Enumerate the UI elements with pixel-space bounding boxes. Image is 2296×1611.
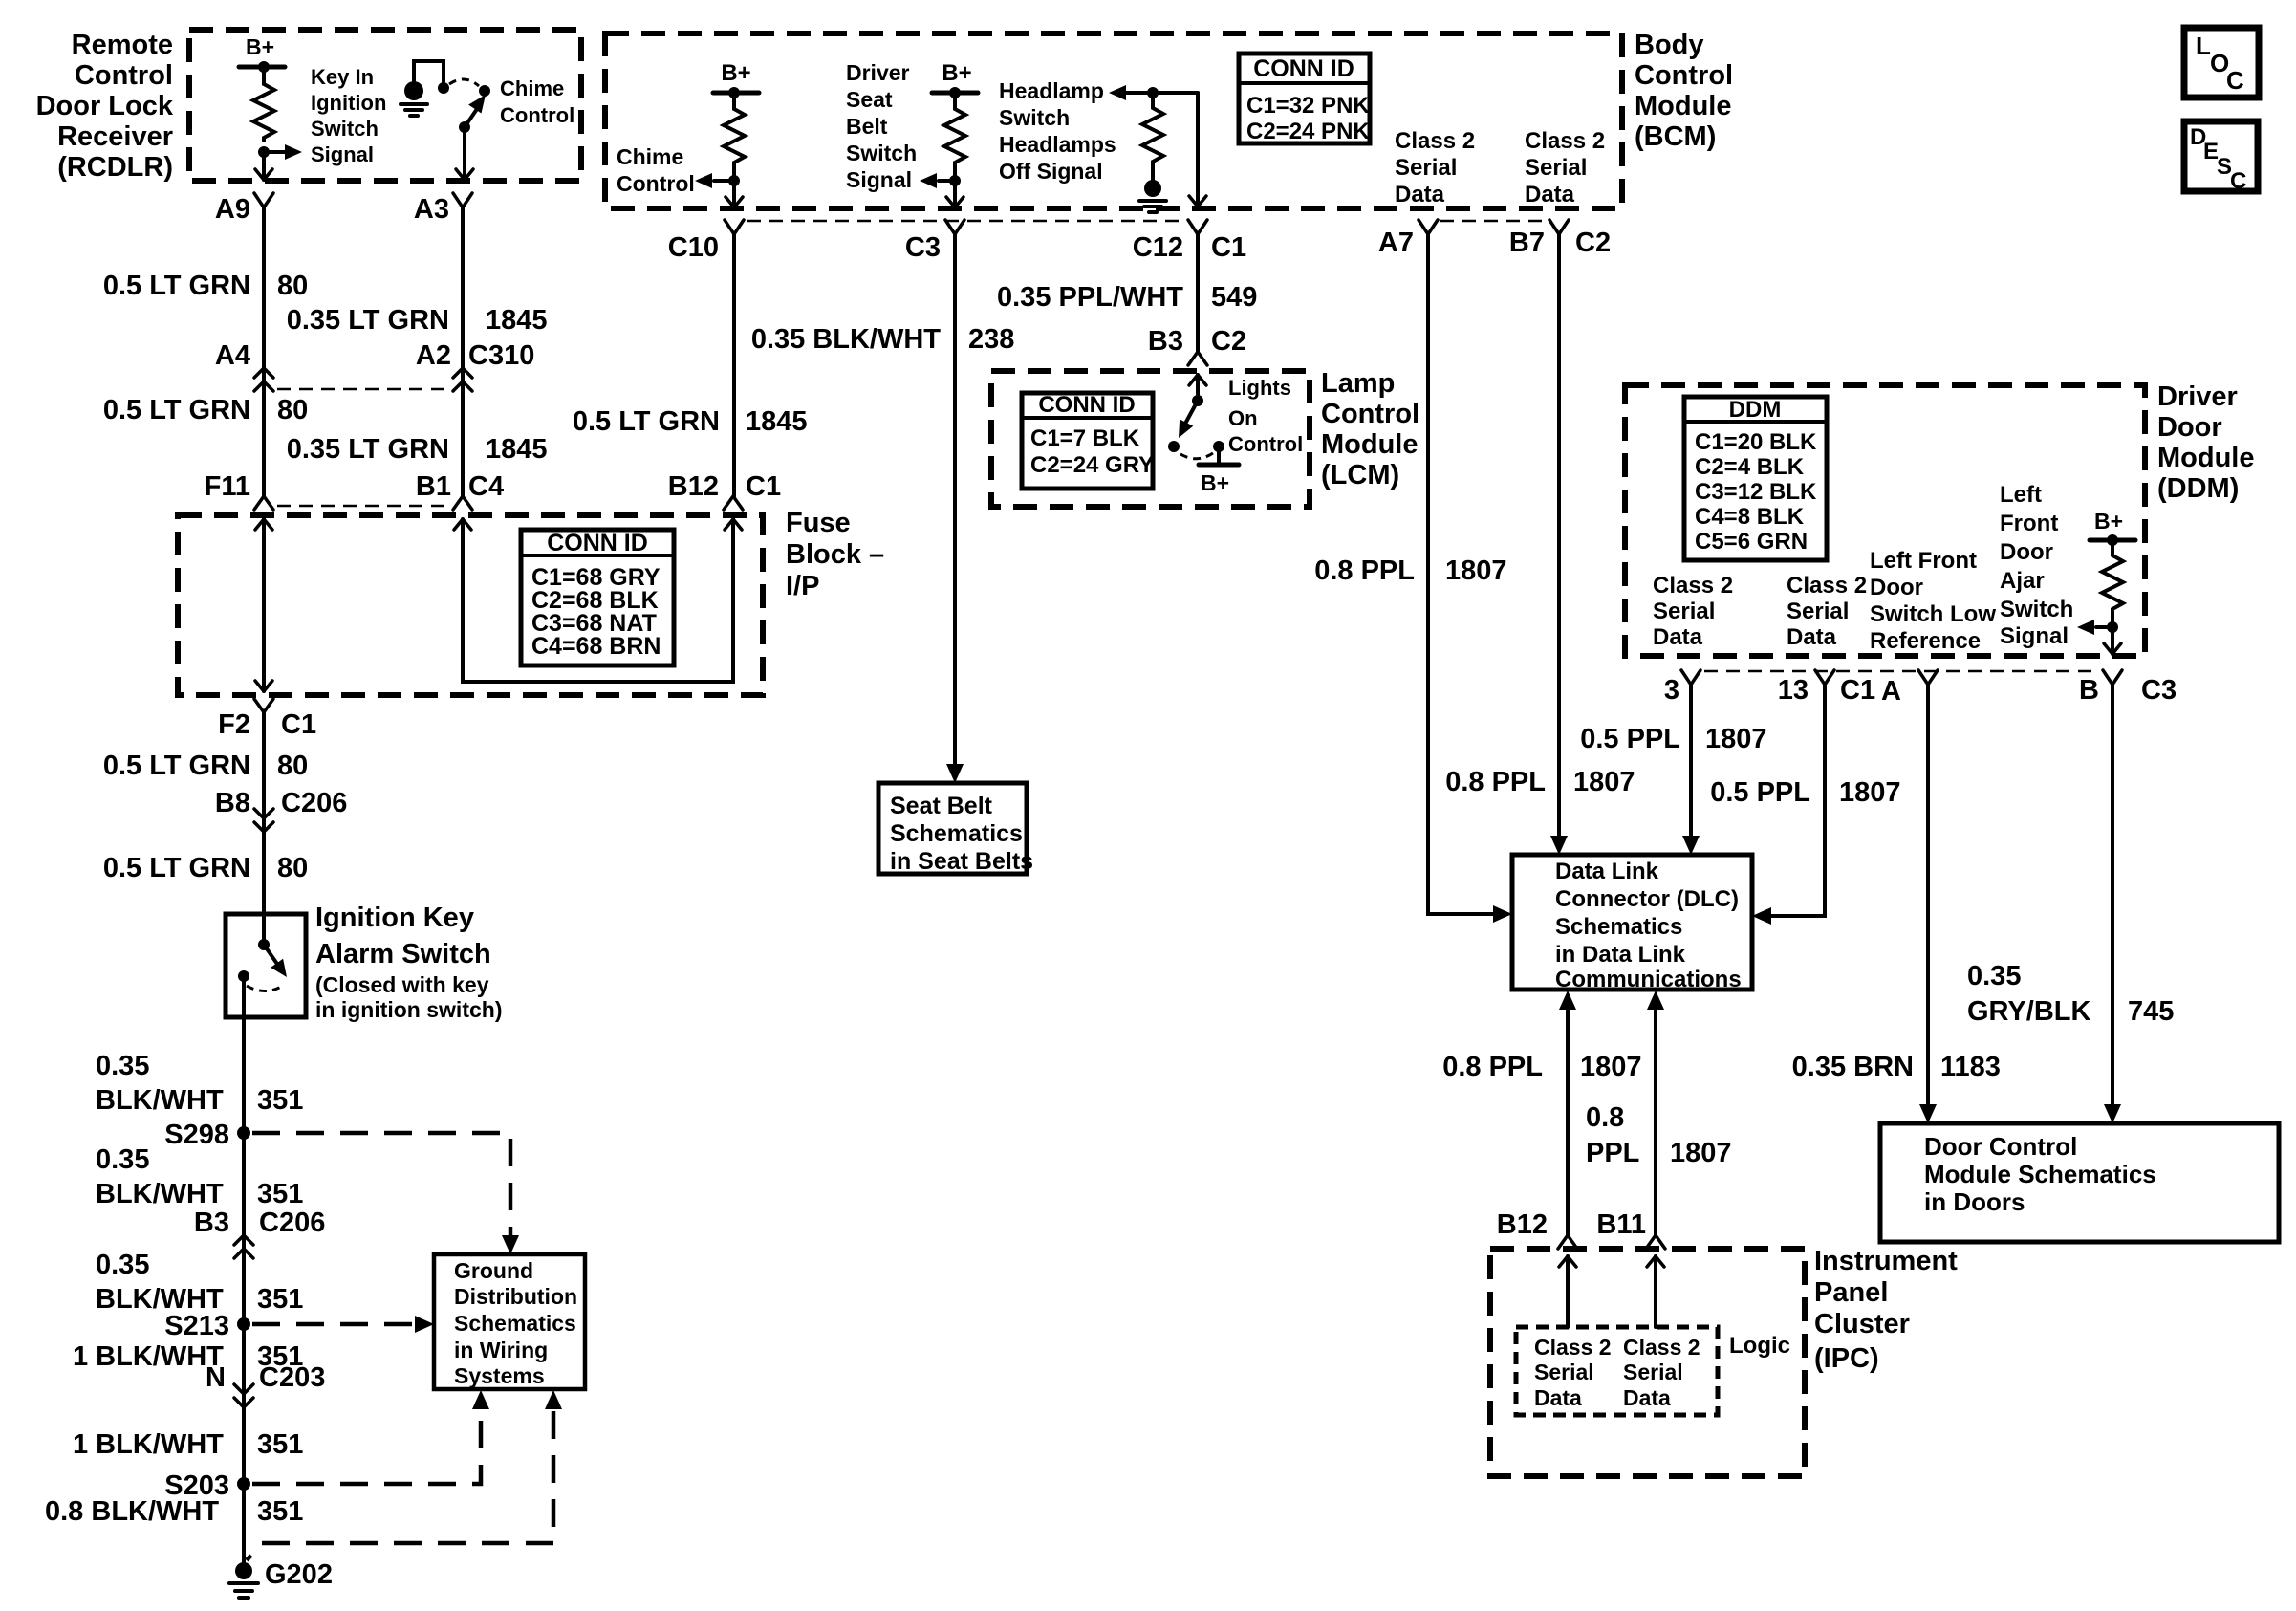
inline connector chevrons B8 C206 [254, 809, 273, 818]
svg-text:351: 351 [257, 1085, 303, 1116]
svg-text:A4: A4 [215, 340, 250, 371]
svg-text:13: 13 [1778, 675, 1809, 706]
svg-text:A: A [1881, 676, 1901, 707]
wire C12 to LCM B3 (0.35 PPL/WHT 549) [1196, 234, 1200, 352]
svg-text:C1=20 BLK: C1=20 BLK [1695, 429, 1817, 455]
svg-text:B3: B3 [194, 1208, 229, 1238]
svg-text:Chime: Chime [500, 76, 564, 100]
svg-text:Class 2: Class 2 [1653, 573, 1733, 599]
junction dot ajar switch node [2107, 621, 2118, 633]
svg-text:Belt: Belt [846, 114, 888, 139]
svg-text:Headlamp: Headlamp [999, 78, 1104, 103]
wire arrow headlamps off signal (pointing left) [1109, 85, 1126, 100]
svg-text:Driver: Driver [2157, 381, 2238, 412]
dashed switch travel arc (chime) [449, 79, 479, 86]
svg-text:549: 549 [1211, 282, 1257, 313]
svg-text:Data: Data [1653, 624, 1703, 650]
svg-text:Headlamps: Headlamps [999, 132, 1116, 157]
svg-text:B+: B+ [721, 60, 750, 86]
power B+ rail (chime) [713, 91, 759, 96]
resistor seat belt switch pull-up (BCM) [944, 106, 965, 165]
svg-text:0.8 PPL: 0.8 PPL [1445, 767, 1546, 797]
svg-text:in Seat Belts: in Seat Belts [890, 848, 1033, 875]
wire chime rail to resistor [732, 93, 736, 106]
svg-text:0.5 LT GRN: 0.5 LT GRN [103, 853, 250, 883]
svg-text:Data: Data [1395, 182, 1445, 207]
dashed link S213 to Ground Distribution box [252, 1322, 413, 1327]
svg-text:Logic: Logic [1729, 1333, 1790, 1359]
wire A7 to DLC (0.8 PPL 1807) [1428, 234, 1495, 914]
power B+ rail (RCDLR) [239, 65, 285, 70]
svg-text:3: 3 [1664, 675, 1679, 706]
junction dot headlamp rail [1147, 87, 1159, 98]
svg-text:Schematics: Schematics [1555, 914, 1682, 940]
node B+ contact (LCM) [1213, 441, 1224, 452]
svg-text:C2=4 BLK: C2=4 BLK [1695, 454, 1805, 480]
dashed connector link F11-B1 [277, 505, 449, 508]
switch arm chime control [465, 109, 477, 127]
splice S213 [237, 1317, 250, 1331]
svg-text:0.35: 0.35 [96, 1051, 149, 1081]
wire bracket from chime ground to contact [414, 61, 444, 82]
svg-text:1807: 1807 [1839, 777, 1901, 808]
svg-text:Connector (DLC): Connector (DLC) [1555, 886, 1739, 912]
power B+ terminal (LCM) [1217, 446, 1221, 463]
svg-text:Serial: Serial [1534, 1360, 1594, 1384]
svg-text:C206: C206 [259, 1208, 325, 1238]
svg-text:Switch: Switch [846, 141, 917, 165]
svg-text:0.5 PPL: 0.5 PPL [1580, 724, 1680, 754]
wire key-in down to pin A9 [262, 152, 266, 180]
svg-text:C: C [2226, 66, 2244, 95]
svg-text:On: On [1228, 406, 1258, 430]
dashed link S203 to Ground Distribution box [252, 1411, 481, 1484]
module Fuse Block I/P box [178, 515, 763, 695]
wire headlamp rail down to pin C12 [1196, 93, 1200, 207]
junction dot seat belt node [949, 175, 961, 186]
node chime fixed contact [438, 82, 449, 94]
svg-text:1807: 1807 [1580, 1052, 1642, 1082]
svg-text:B7: B7 [1509, 228, 1545, 258]
svg-text:in ignition switch): in ignition switch) [315, 997, 502, 1022]
svg-text:Class 2: Class 2 [1534, 1335, 1612, 1360]
svg-text:Data: Data [1787, 624, 1837, 650]
connector table DDM [1684, 397, 1827, 560]
svg-text:1807: 1807 [1445, 555, 1507, 586]
pin A9 connector chevron [254, 193, 273, 207]
junction dot chime rail [728, 87, 740, 98]
svg-text:1807: 1807 [1670, 1138, 1732, 1168]
wire arrow to Chime Control label [714, 179, 734, 183]
svg-text:0.8 PPL: 0.8 PPL [1314, 555, 1415, 586]
svg-text:Data: Data [1623, 1385, 1671, 1410]
svg-text:0.35 LT GRN: 0.35 LT GRN [287, 434, 449, 465]
svg-text:Door Lock: Door Lock [36, 91, 174, 121]
svg-text:in Doors: in Doors [1924, 1187, 2025, 1216]
svg-text:Remote: Remote [72, 30, 173, 60]
module LCM (Lamp Control Module) box [991, 371, 1310, 507]
wire resistor to chime node [732, 165, 736, 181]
connector table CONN ID (fuse block) [521, 530, 674, 665]
dashed connector row A7-B7 [1440, 220, 1547, 223]
svg-text:0.35 BLK/WHT: 0.35 BLK/WHT [751, 324, 941, 355]
pin B3 chevron at LCM top [1188, 352, 1207, 365]
connector table CONN ID (LCM) [1022, 393, 1153, 489]
wire C3 to Seat Belt Schematics (0.35 BLK/WHT 238) [953, 234, 957, 766]
svg-text:B+: B+ [246, 34, 274, 59]
svg-text:Receiver: Receiver [57, 121, 173, 152]
svg-text:BLK/WHT: BLK/WHT [96, 1085, 224, 1116]
svg-text:351: 351 [257, 1179, 303, 1209]
svg-text:Signal: Signal [311, 142, 374, 166]
svg-text:C3: C3 [905, 232, 941, 263]
svg-text:C4=68 BRN: C4=68 BRN [531, 633, 661, 660]
svg-text:N: N [206, 1362, 226, 1393]
svg-text:Left: Left [2000, 482, 2042, 508]
wire A3 to B1 (0.35 LT GRN 1845) [461, 207, 465, 496]
svg-text:Switch Low: Switch Low [1870, 601, 1996, 627]
ground ball (BCM internal) [1144, 180, 1161, 197]
svg-text:C2=24 PNK: C2=24 PNK [1246, 119, 1370, 144]
inline connector chevrons B3 C206 [234, 1235, 253, 1245]
pin C12 connector C1 chevron (BCM) [1188, 220, 1207, 234]
svg-text:Seat Belt: Seat Belt [890, 793, 993, 819]
svg-text:DDM: DDM [1729, 397, 1782, 423]
legend box LOC [2184, 28, 2259, 98]
wire DDM pin B to Door Control box (0.35 GRY/BLK 745) [2111, 685, 2114, 1106]
wire chime pivot down to pin A3 [463, 127, 466, 180]
inline connector chevrons N C203 [234, 1384, 253, 1394]
svg-text:Control: Control [500, 103, 574, 127]
wire resistor to seat belt node [953, 165, 957, 181]
svg-text:0.5 PPL: 0.5 PPL [1710, 777, 1810, 808]
svg-text:745: 745 [2128, 996, 2174, 1027]
box Ground Distribution Schematics [434, 1254, 585, 1389]
svg-text:C206: C206 [281, 788, 347, 818]
svg-text:0.5 LT GRN: 0.5 LT GRN [103, 751, 250, 781]
legend box DESC [2184, 121, 2258, 191]
wire F2 to ignition key alarm switch (0.5 LT GRN 80) [262, 712, 266, 945]
ground ball (chime control internal ground) [404, 81, 423, 100]
svg-text:Block –: Block – [786, 539, 884, 570]
svg-text:Serial: Serial [1787, 599, 1849, 624]
splice S203 [237, 1477, 250, 1491]
svg-text:Switch: Switch [2000, 597, 2073, 622]
svg-text:Control: Control [1321, 399, 1419, 429]
svg-text:0.8: 0.8 [1586, 1102, 1624, 1133]
power B+ rail (seat belt) [932, 91, 978, 96]
svg-text:C: C [2230, 168, 2246, 194]
inline connector chevrons at A4 [254, 368, 273, 378]
svg-text:Panel: Panel [1814, 1277, 1888, 1308]
switch arm ignition key alarm [264, 945, 279, 967]
wire rail to resistor [1151, 93, 1155, 105]
wire arrow to Signal label (DDM) [2096, 625, 2112, 629]
svg-text:Serial: Serial [1395, 155, 1457, 181]
svg-text:0.5 LT GRN: 0.5 LT GRN [573, 406, 720, 437]
svg-text:Body: Body [1635, 30, 1704, 60]
svg-text:C203: C203 [259, 1362, 325, 1393]
svg-text:Cluster: Cluster [1814, 1309, 1910, 1339]
svg-text:Control: Control [1228, 432, 1303, 456]
svg-text:C12: C12 [1133, 232, 1183, 263]
splice S298 [237, 1126, 250, 1140]
svg-text:Data Link: Data Link [1555, 859, 1659, 884]
pin 3 connector chevron (DDM) [1681, 670, 1700, 685]
svg-text:C4=8 BLK: C4=8 BLK [1695, 504, 1805, 530]
svg-text:A3: A3 [414, 194, 449, 225]
svg-text:B+: B+ [1201, 470, 1229, 495]
module DDM (Driver Door Module) box [1625, 385, 2145, 656]
svg-text:CONN ID: CONN ID [1038, 392, 1135, 418]
svg-text:PPL: PPL [1586, 1138, 1639, 1168]
inline connector chevrons at A2 C310 [453, 368, 472, 378]
svg-text:B: B [2079, 675, 2099, 706]
wire B+ to resistor [262, 67, 266, 81]
pin B12 chevron at fuse block top [724, 496, 743, 510]
svg-text:Module Schematics: Module Schematics [1924, 1160, 2156, 1188]
node chime switch contact [479, 85, 490, 97]
svg-text:Schematics: Schematics [890, 820, 1023, 847]
svg-text:C4: C4 [468, 471, 504, 502]
wire resistor to ground ball [1151, 164, 1155, 182]
svg-text:Module: Module [2157, 443, 2255, 473]
svg-text:0.35: 0.35 [1967, 961, 2021, 991]
svg-text:C5=6 GRN: C5=6 GRN [1695, 529, 1808, 555]
svg-text:Reference: Reference [1870, 628, 1981, 654]
wire DDM pin A to Door Control box (0.35 BRN 1183) [1926, 685, 1930, 1106]
dashed connector link A4-A2 [277, 388, 449, 391]
svg-text:A9: A9 [215, 194, 250, 225]
pin A3 connector chevron [453, 193, 472, 207]
pin B11 chevron at IPC top [1646, 1235, 1665, 1249]
svg-text:80: 80 [277, 271, 308, 301]
wire arrow up inside IPC (B12) [1559, 1256, 1576, 1267]
svg-text:Serial: Serial [1653, 599, 1715, 624]
pin B12 chevron at IPC top [1558, 1235, 1577, 1249]
dashed link Ground Distribution box to G202 [247, 1411, 553, 1560]
wire ajar node down to pin B [2111, 627, 2114, 654]
svg-text:I/P: I/P [786, 571, 819, 601]
svg-text:Serial: Serial [1623, 1360, 1683, 1384]
svg-text:Off Signal: Off Signal [999, 159, 1103, 184]
wire arrow Key In Ignition Switch Signal [264, 150, 285, 154]
svg-text:Alarm Switch: Alarm Switch [315, 939, 491, 969]
box Seat Belt Schematics [878, 783, 1027, 874]
svg-text:Instrument: Instrument [1814, 1246, 1958, 1276]
svg-text:238: 238 [968, 324, 1014, 355]
svg-text:Door: Door [2000, 539, 2053, 565]
svg-text:0.8 BLK/WHT: 0.8 BLK/WHT [45, 1496, 219, 1527]
pin C3 connector chevron (BCM) [945, 220, 964, 234]
ground G202 [235, 1562, 252, 1579]
svg-text:0.35 PPL/WHT: 0.35 PPL/WHT [997, 282, 1183, 313]
svg-text:Class 2: Class 2 [1787, 573, 1867, 599]
svg-text:Class 2: Class 2 [1395, 128, 1475, 154]
pin A7 connector chevron (BCM) [1419, 220, 1438, 234]
svg-text:Door Control: Door Control [1924, 1132, 2077, 1161]
wire rail to resistor [953, 93, 957, 106]
resistor door ajar switch pull-up (DDM) [2102, 553, 2123, 612]
wire DDM pin 3 to DLC (0.5 PPL 1807) [1689, 685, 1693, 838]
svg-text:Lights: Lights [1228, 376, 1291, 400]
svg-text:Signal: Signal [846, 167, 912, 192]
wire resistor to ajar node [2111, 612, 2114, 627]
svg-text:C1: C1 [1211, 232, 1246, 263]
pin B7 connector C2 chevron (BCM) [1549, 220, 1569, 234]
svg-text:Ignition Key: Ignition Key [315, 903, 474, 933]
svg-text:Driver: Driver [846, 60, 910, 85]
wire seat belt node down to pin C3 [953, 181, 957, 207]
wire arrow up inside LCM [1189, 375, 1206, 385]
svg-text:A7: A7 [1378, 228, 1414, 258]
junction dot DDM rail [2107, 534, 2118, 546]
svg-text:Data: Data [1534, 1385, 1582, 1410]
svg-text:S298: S298 [164, 1120, 229, 1150]
svg-text:C1: C1 [746, 471, 781, 502]
svg-text:Control: Control [1635, 60, 1733, 91]
svg-text:Switch: Switch [311, 117, 379, 141]
svg-text:B+: B+ [2094, 509, 2123, 533]
svg-text:Distribution: Distribution [454, 1284, 577, 1309]
svg-text:C1=7 BLK: C1=7 BLK [1030, 425, 1140, 451]
wire DLC to IPC B11 (0.8 PPL 1807) [1654, 1008, 1657, 1235]
svg-text:Chime: Chime [617, 144, 683, 169]
svg-text:1 BLK/WHT: 1 BLK/WHT [73, 1341, 224, 1372]
wire DLC to IPC B12 (0.8 PPL 1807) [1566, 1008, 1570, 1235]
svg-text:Lamp: Lamp [1321, 368, 1395, 399]
svg-text:B+: B+ [942, 60, 971, 86]
dashed connector row DDM pins [1704, 670, 2100, 673]
node ignition switch pivot [258, 939, 270, 950]
svg-text:C1: C1 [1840, 675, 1875, 706]
wire chime node down to pin C10 [732, 181, 736, 207]
svg-text:Class 2: Class 2 [1525, 128, 1605, 154]
dashed switch travel arc (ignition) [247, 986, 283, 991]
box Logic (IPC) [1516, 1327, 1718, 1415]
svg-text:L: L [2196, 32, 2211, 60]
svg-text:B8: B8 [215, 788, 250, 818]
svg-text:Class 2: Class 2 [1623, 1335, 1700, 1360]
svg-text:Ajar: Ajar [2000, 568, 2045, 594]
wire F11 to F2 through fuse block [262, 519, 266, 691]
svg-text:1845: 1845 [746, 406, 808, 437]
pin B1 chevron at fuse block top [453, 496, 472, 510]
svg-text:B3: B3 [1148, 326, 1183, 357]
svg-text:GRY/BLK: GRY/BLK [1967, 996, 2090, 1027]
svg-text:Schematics: Schematics [454, 1311, 576, 1336]
svg-text:Fuse: Fuse [786, 508, 851, 538]
svg-text:C1: C1 [281, 709, 316, 740]
svg-text:C2: C2 [1575, 228, 1611, 258]
wire B1 to B12 U-path inside fuse block [463, 519, 733, 682]
svg-text:Door: Door [2157, 412, 2222, 443]
power B+ rail (DDM) [2090, 538, 2135, 543]
svg-text:S213: S213 [164, 1311, 229, 1341]
module BCM (Body Control Module) box [605, 33, 1622, 208]
svg-text:80: 80 [277, 853, 308, 883]
svg-text:Signal: Signal [2000, 623, 2069, 649]
svg-text:80: 80 [277, 751, 308, 781]
svg-text:Data: Data [1525, 182, 1575, 207]
node lights-on switch pivot [1192, 395, 1203, 406]
svg-text:1807: 1807 [1573, 767, 1635, 797]
svg-text:0.35: 0.35 [96, 1144, 149, 1175]
node lights-on fixed contact [1168, 441, 1180, 452]
junction dot seat belt rail [949, 87, 961, 98]
wire C10 to B12 (0.5 LT GRN 1845) [732, 234, 736, 496]
pin B connector C3 chevron (DDM) [2103, 670, 2122, 685]
svg-text:Ground: Ground [454, 1258, 533, 1283]
svg-text:C3: C3 [2141, 675, 2177, 706]
svg-text:351: 351 [257, 1429, 303, 1460]
wire arrow to Signal label [939, 179, 955, 183]
junction dot on B+ rail [258, 61, 270, 73]
svg-text:C1=32 PNK: C1=32 PNK [1246, 93, 1370, 119]
svg-text:B12: B12 [1497, 1209, 1548, 1240]
svg-text:351: 351 [257, 1284, 303, 1315]
svg-text:Systems: Systems [454, 1363, 545, 1388]
wire B7 C2 to DLC (0.8 PPL 1807) [1557, 234, 1561, 838]
dashed link S298 to Ground Distribution box [252, 1133, 510, 1235]
svg-text:A2: A2 [416, 340, 451, 371]
svg-text:Left Front: Left Front [1870, 548, 1977, 574]
svg-text:F2: F2 [218, 709, 250, 740]
dashed switch travel arc (lights on) [1180, 453, 1213, 459]
svg-text:Module: Module [1321, 429, 1419, 460]
pin 13 connector C1 chevron (DDM) [1815, 670, 1834, 685]
svg-text:C310: C310 [468, 340, 534, 371]
wire ignition switch to G202 (BLK/WHT 351 ground chain) [242, 976, 246, 1564]
svg-text:(IPC): (IPC) [1814, 1343, 1879, 1374]
svg-text:0.5 LT GRN: 0.5 LT GRN [103, 395, 250, 425]
svg-text:CONN ID: CONN ID [1253, 55, 1354, 82]
svg-text:F11: F11 [205, 471, 250, 502]
svg-text:Communications: Communications [1555, 967, 1742, 992]
svg-text:Key In: Key In [311, 65, 374, 89]
switch Ignition Key Alarm Switch box [226, 914, 306, 1017]
svg-text:C2=24 GRY: C2=24 GRY [1030, 452, 1154, 478]
svg-text:in Wiring: in Wiring [454, 1338, 548, 1362]
svg-text:Control: Control [617, 171, 695, 196]
svg-text:0.8 PPL: 0.8 PPL [1442, 1052, 1543, 1082]
pin F2 connector C1 chevron below fuse block [254, 699, 273, 712]
svg-text:BLK/WHT: BLK/WHT [96, 1179, 224, 1209]
svg-text:1845: 1845 [486, 434, 548, 465]
wire rail to resistor [2111, 540, 2114, 553]
svg-text:Door: Door [1870, 575, 1923, 600]
switch arm lights on control [1185, 401, 1198, 424]
dashed connector row C10-C12 [747, 220, 1185, 223]
svg-text:B11: B11 [1596, 1209, 1646, 1240]
pin C10 connector chevron (BCM) [725, 220, 744, 234]
svg-text:Front: Front [2000, 511, 2058, 536]
svg-text:B1: B1 [416, 471, 451, 502]
svg-text:(RCDLR): (RCDLR) [57, 152, 173, 183]
svg-text:80: 80 [277, 395, 308, 425]
svg-text:C3=12 BLK: C3=12 BLK [1695, 479, 1817, 505]
svg-text:351: 351 [257, 1496, 303, 1527]
wire DDM pin 13 to DLC (0.5 PPL 1807) [1769, 685, 1825, 916]
svg-text:0.35 BRN: 0.35 BRN [1792, 1052, 1914, 1082]
svg-text:CONN ID: CONN ID [547, 530, 648, 556]
svg-text:C2: C2 [1211, 326, 1246, 357]
svg-text:Serial: Serial [1525, 155, 1587, 181]
svg-text:Seat: Seat [846, 87, 893, 112]
svg-text:(BCM): (BCM) [1635, 121, 1716, 152]
pin A connector chevron (DDM) [1918, 670, 1938, 685]
connector table CONN ID (BCM) [1239, 54, 1370, 143]
